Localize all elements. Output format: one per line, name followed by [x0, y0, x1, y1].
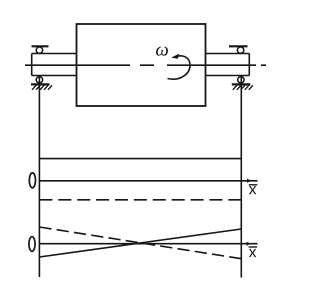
- graph1 x-bar label: [249, 185, 257, 194]
- shaft left segment: [32, 54, 77, 76]
- ground hatch left: [31, 84, 52, 89]
- graph2 zero axis with arrow: [39, 242, 257, 246]
- rotor body: [77, 24, 206, 106]
- bearing B1 cap line: [32, 45, 49, 47]
- bearing B2 top roller: [237, 47, 243, 53]
- graph2 0 label: [29, 237, 35, 252]
- bearing B1 bottom roller: [36, 77, 42, 83]
- graph1 zero axis with arrow: [39, 179, 257, 183]
- shaft right segment: [206, 54, 250, 76]
- bearing B2 bottom roller: [238, 77, 244, 83]
- bearing B2 cap line: [229, 45, 248, 47]
- graph2 solid diagonal: [39, 229, 241, 257]
- graph1 top line: [39, 158, 241, 160]
- omega label: [156, 47, 168, 56]
- support line left: [38, 76, 40, 278]
- graph1 0 label: [29, 173, 35, 188]
- graph1 dashed line: [39, 199, 241, 201]
- graph2 dashed diagonal: [39, 227, 241, 259]
- bearing B1 top roller: [36, 47, 42, 53]
- rotation arrow: [168, 54, 191, 80]
- centerline (dash-dot axis of rotation): [25, 64, 266, 66]
- ground hatch right: [232, 84, 253, 89]
- support line right: [240, 76, 242, 278]
- graph2 x-bar label: [249, 247, 257, 257]
